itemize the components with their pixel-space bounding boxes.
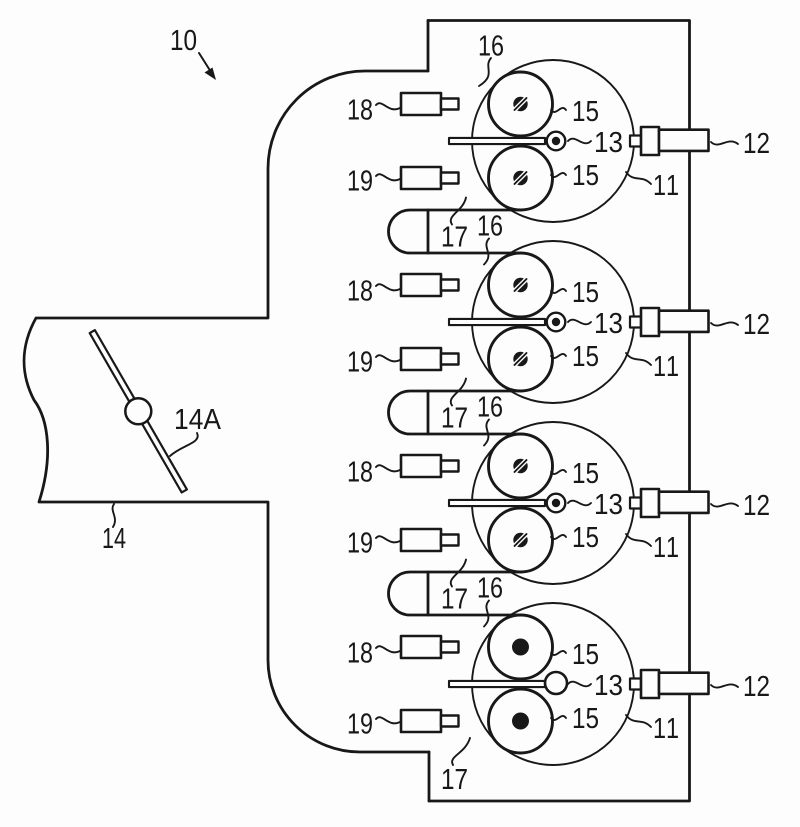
spark plug 12 stem (unit 4): [630, 679, 641, 690]
injector 19 nozzle (unit 1): [441, 173, 459, 184]
leader squiggle 19 (unit 2): [376, 355, 400, 361]
label 12 (unit 4): [745, 676, 769, 696]
leader squiggle 11 (unit 3): [626, 534, 651, 546]
label 14A (throttle valve): [176, 409, 221, 429]
label 17 (channel 1): [443, 227, 467, 247]
intake channel 17 (stadium passage) between unit 3 and 4: [389, 572, 519, 615]
leader squiggle 12 (unit 1): [711, 141, 738, 144]
leader squiggle 11 (unit 2): [626, 353, 651, 365]
intake manifold 14 outline: [24, 71, 429, 752]
housing left wall segment (top): [427, 21, 430, 72]
label 18 (unit 4): [349, 642, 372, 663]
injector 18 nozzle (unit 3): [441, 461, 459, 472]
label 13 (unit 4): [596, 675, 622, 696]
injector 18 body (unit 1): [401, 93, 441, 115]
rotor shaft slotted-pin mark (lower, unit 1): [511, 169, 529, 187]
leader squiggle 13 (unit 4): [568, 682, 591, 687]
label 13 (unit 2): [596, 313, 622, 334]
leader squiggle 17 (channel 2): [451, 379, 466, 406]
label 14 (intake pipe): [104, 528, 126, 548]
throttle valve plate 14A: [90, 330, 187, 492]
lower rotor 15 (unit 2): [489, 327, 553, 391]
leader squiggle 18 (unit 3): [376, 465, 400, 471]
leader squiggle 16 (channel 2): [484, 420, 489, 446]
leader squiggle 15 upper (unit 2): [551, 289, 566, 293]
label 12 (unit 2): [745, 314, 769, 334]
spark plug 12 collar (unit 4): [641, 670, 659, 698]
label 12 (unit 3): [745, 495, 769, 515]
pivot circle 13 open (unit 4): [545, 672, 567, 694]
leader squiggle 12 (unit 3): [711, 503, 738, 506]
label 18 (unit 1): [349, 99, 372, 120]
pivot dot 13 (unit 2): [552, 318, 560, 326]
label 19 (unit 2): [349, 351, 372, 372]
spark plug 12 barrel (unit 4): [659, 673, 709, 694]
leader squiggle 15 lower (unit 2): [551, 354, 566, 358]
leader squiggle 19 (unit 1): [376, 174, 400, 180]
separator blade between rotors (unit 4): [449, 681, 545, 687]
leader squiggle 15 lower (unit 3): [551, 535, 566, 539]
arrow for label 10: [199, 53, 211, 72]
label 15 lower (unit 3): [574, 527, 598, 547]
leader squiggle 16 (channel 1): [484, 239, 489, 265]
leader squiggle 17 (channel 1): [451, 198, 466, 225]
label 18 (unit 3): [349, 461, 372, 482]
label 15 lower (unit 4): [574, 708, 598, 728]
leader squiggle 18 (unit 4): [376, 646, 400, 652]
label 15 upper (unit 1): [574, 101, 598, 121]
label 11 (unit 3): [655, 537, 678, 557]
label 11 (unit 4): [655, 718, 678, 738]
pivot circle 13 (unit 1): [547, 132, 566, 151]
injector 18 body (unit 4): [401, 636, 441, 658]
label 18 (unit 2): [349, 280, 372, 301]
housing left wall segment at channel 4: [427, 572, 430, 615]
leader squiggle 16 (channel 3): [484, 601, 489, 627]
leader squiggle 15 lower (unit 1): [551, 173, 566, 177]
label 16 (unit 1 chamber, top): [480, 35, 503, 56]
spark plug 12 collar (unit 2): [641, 308, 659, 336]
injector 19 body (unit 4): [401, 710, 441, 732]
leader squiggle 11 (unit 1): [626, 172, 651, 184]
label 11 (unit 1): [655, 175, 678, 195]
injector 19 body (unit 1): [401, 167, 441, 189]
rotor shaft filled dot (upper, unit 4): [512, 639, 529, 656]
label 17 (channel 2): [443, 408, 467, 428]
leader squiggle 14: [113, 504, 115, 527]
injector 19 body (unit 2): [401, 348, 441, 370]
lower rotor 15 (unit 1): [489, 146, 553, 210]
injector 19 body (unit 3): [401, 529, 441, 551]
upper rotor 15 (unit 1): [489, 72, 553, 136]
label 12 (unit 1): [745, 133, 769, 153]
throttle valve shaft circle 14A: [125, 398, 151, 424]
leader squiggle 17 bottom: [452, 738, 470, 765]
pivot dot 13 (unit 3): [552, 499, 560, 507]
label 16 (chamber below channel 1): [479, 215, 502, 236]
label 19 (unit 4): [349, 713, 372, 734]
intake channel 17 (stadium passage) between unit 2 and 3: [389, 391, 519, 434]
spark plug 12 barrel (unit 1): [659, 130, 709, 151]
leader squiggle 13 (unit 2): [568, 320, 591, 325]
leader squiggle 19 (unit 3): [376, 536, 400, 542]
rotor shaft filled dot (lower, unit 4): [512, 713, 529, 730]
injector 18 body (unit 3): [401, 455, 441, 477]
rotor shaft slotted-pin mark (lower, unit 3): [511, 531, 529, 549]
lower rotor 15 (unit 4): [489, 689, 553, 753]
pivot circle 13 (unit 3): [547, 494, 566, 513]
label 15 upper (unit 2): [574, 282, 598, 302]
label 15 upper (unit 3): [574, 463, 598, 483]
leader squiggle 15 upper (unit 1): [551, 108, 566, 112]
label 17 (channel 3): [443, 589, 467, 609]
rotor shaft slotted-pin mark (upper, unit 2): [511, 276, 529, 294]
spark plug 12 barrel (unit 2): [659, 311, 709, 332]
rotor shaft slotted-pin mark (upper, unit 3): [511, 457, 529, 475]
spark plug 12 barrel (unit 3): [659, 492, 709, 513]
leader squiggle 15 lower (unit 4): [551, 716, 566, 720]
injector 18 nozzle (unit 4): [441, 642, 459, 653]
separator blade between rotors (unit 3): [449, 500, 545, 506]
pivot dot 13 (unit 1): [552, 137, 560, 145]
label 19 (unit 3): [349, 532, 372, 553]
rotor shaft slotted-pin mark (lower, unit 2): [511, 350, 529, 368]
housing left wall segment at channel 3: [427, 391, 430, 434]
label 19 (unit 1): [349, 170, 372, 191]
spark plug 12 stem (unit 1): [630, 136, 641, 147]
rotor shaft slotted-pin mark (upper, unit 1): [511, 95, 529, 113]
label 13 (unit 3): [596, 494, 622, 515]
injector 18 body (unit 2): [401, 274, 441, 296]
spark plug 12 stem (unit 3): [630, 498, 641, 509]
leader squiggle 12 (unit 4): [711, 684, 738, 687]
leader squiggle 13 (unit 1): [568, 139, 591, 144]
leader squiggle 11 (unit 4): [626, 715, 651, 727]
label 15 lower (unit 2): [574, 346, 598, 366]
spark plug 12 collar (unit 1): [641, 127, 659, 155]
upper rotor 15 (unit 3): [489, 434, 553, 498]
label 10 (overall apparatus): [172, 30, 196, 51]
leader squiggle 17 (channel 3): [451, 560, 466, 587]
separator blade between rotors (unit 1): [449, 138, 545, 144]
combustion chamber circle 11 (unit 3): [472, 422, 634, 584]
pivot circle 13 (unit 2): [547, 313, 566, 332]
leader squiggle 18 (unit 2): [376, 284, 400, 290]
housing left wall segment at channel 2: [427, 210, 430, 253]
injector 18 nozzle (unit 2): [441, 280, 459, 291]
upper rotor 15 (unit 2): [489, 253, 553, 317]
leader squiggle 14A: [170, 433, 198, 456]
combustion chamber circle 11 (unit 1): [472, 60, 634, 222]
injector 19 nozzle (unit 2): [441, 354, 459, 365]
leader squiggle 15 upper (unit 4): [551, 651, 566, 655]
intake channel 17 (stadium passage) between unit 1 and 2: [389, 210, 519, 253]
leader squiggle 15 upper (unit 3): [551, 470, 566, 474]
label 17 (bottom channel): [443, 769, 467, 789]
engine block housing outline (top, right, bottom edges): [428, 21, 690, 802]
upper rotor 15 (unit 4): [489, 615, 553, 679]
combustion chamber circle 11 (unit 2): [472, 241, 634, 403]
leader squiggle 18 (unit 1): [376, 103, 400, 109]
leader squiggle 12 (unit 2): [711, 322, 738, 325]
leader squiggle 13 (unit 3): [568, 501, 591, 506]
label 16 (chamber below channel 3): [479, 577, 502, 598]
label 11 (unit 2): [655, 356, 678, 376]
label 16 (chamber below channel 2): [479, 396, 502, 417]
separator blade between rotors (unit 2): [449, 319, 545, 325]
spark plug 12 stem (unit 2): [630, 317, 641, 328]
label 15 upper (unit 4): [574, 644, 598, 664]
leader squiggle 19 (unit 4): [376, 717, 400, 723]
injector 19 nozzle (unit 4): [441, 716, 459, 727]
lower rotor 15 (unit 3): [489, 508, 553, 572]
injector 19 nozzle (unit 3): [441, 535, 459, 546]
combustion chamber circle 11 (unit 4): [472, 603, 634, 765]
spark plug 12 collar (unit 3): [641, 489, 659, 517]
leader squiggle 16 top: [479, 58, 491, 86]
label 15 lower (unit 1): [574, 165, 598, 185]
injector 18 nozzle (unit 1): [441, 99, 459, 110]
housing left wall segment (bottom): [428, 752, 431, 801]
label 13 (unit 1): [596, 132, 622, 153]
